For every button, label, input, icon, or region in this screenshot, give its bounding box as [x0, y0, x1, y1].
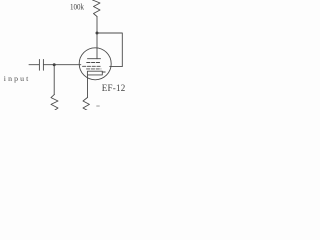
anode plate	[88, 58, 101, 60]
wire input left	[29, 64, 39, 66]
grid g2 (dashed)	[83, 65, 102, 67]
wire cathode lead	[87, 75, 89, 98]
junction node A (plate/screen)	[96, 32, 99, 35]
tube U1 envelope	[79, 48, 111, 80]
cathode box	[87, 71, 102, 75]
junction node B (grid)	[53, 63, 56, 66]
svg-text:input: input	[4, 74, 29, 83]
wire plate lead vertical	[96, 17, 98, 59]
wire grid-leak lead	[53, 65, 55, 95]
resistor R3 (cathode)	[83, 97, 89, 111]
grid g3 (dashed)	[87, 62, 101, 64]
wire screen-grid loop	[97, 33, 122, 67]
svg-text:EF-12: EF-12	[102, 83, 126, 93]
grid g1 (dashed)	[87, 68, 102, 70]
resistor R2 (grid leak)	[51, 94, 58, 111]
cathode tick	[102, 71, 105, 73]
capacitor C1 plate left	[38, 60, 40, 71]
capacitor C1 plate right	[42, 60, 44, 71]
resistor R1 (plate load)	[93, 0, 101, 17]
wire capacitor to grid	[43, 64, 80, 66]
faint mark	[96, 105, 100, 107]
svg-text:100k: 100k	[70, 3, 84, 12]
